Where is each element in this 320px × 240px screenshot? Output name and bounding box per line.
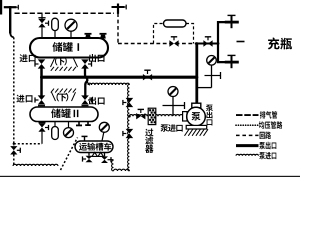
wire: loop line horizontal (dashed) to pump riser: [118, 43, 195, 45]
legend sample: equalizing line: [236, 124, 259, 126]
tank I pressure gauge: [70, 31, 72, 38]
tank II outlet valve: [81, 95, 89, 104]
wire: loop line vertical (dashed): [117, 13, 119, 43]
bottle connection cross (upper): [225, 15, 239, 28]
valve on equalizing line: [10, 146, 17, 154]
ground hatch mark tank II: [51, 89, 76, 93]
ground hatch mark tank I: [51, 67, 76, 71]
storage tank I: [30, 38, 108, 58]
pump P1: [183, 103, 206, 126]
legend sample: pump inlet: [236, 154, 258, 155]
pump base with ground hatching: [185, 125, 209, 135]
label chukou1: [89, 54, 105, 62]
bypass box (dashed) around loop valve: [154, 24, 194, 44]
filling station bracket: [218, 21, 230, 63]
filter (hatched): [148, 108, 156, 124]
truck left unloading valve: [88, 152, 90, 155]
valve on suction leg (lower): [126, 129, 134, 138]
truck gauge: [102, 132, 104, 141]
label pumpout: [206, 105, 213, 126]
label leg5: [259, 152, 276, 159]
valve on loop line: [169, 40, 178, 46]
wire: equalizing line (dotted) left vertical: [13, 37, 15, 145]
tank I vent valve to header: [41, 13, 43, 19]
wire: equalizing diagonal (dotted) to truck: [61, 138, 78, 171]
wire: pump discharge riser (thick): [195, 44, 198, 105]
bottle connection cross (lower): [225, 55, 239, 68]
valve on suction leg (upper): [126, 98, 134, 107]
label leg2: [259, 121, 282, 129]
label chongping: [268, 38, 292, 50]
label xia2: [57, 93, 69, 102]
label pumpchar: [192, 112, 201, 120]
suction pressure gauge branch: [163, 97, 185, 117]
wire: solid line riser top to filling bracket: [195, 43, 218, 45]
tank I inlet valve: [38, 56, 45, 58]
discharge pressure gauge: [207, 56, 217, 66]
label filterlbl: [145, 128, 153, 153]
tank I top nozzle fittings: [85, 35, 91, 39]
wire: tank inlet drop (thick): [40, 68, 43, 96]
truck right unloading valve: [104, 152, 106, 156]
wire: truck unloading (wavy) bottom run: [114, 169, 130, 171]
storage tank II: [30, 107, 98, 122]
label leg1: [260, 111, 277, 119]
valve before filter: [136, 113, 145, 119]
label truckname: [79, 143, 112, 151]
truck vapor valve: [82, 135, 88, 137]
wire: exhaust header (dashed) from stack 1 to stack 2: [15, 12, 115, 14]
wire: pump suction (wavy) header branch: [87, 81, 90, 85]
tank II pressure gauge: [68, 122, 70, 128]
wire: pump discharge header (thick): [42, 76, 197, 79]
tank II inlet valve: [38, 95, 46, 104]
label xia1: [55, 57, 67, 66]
label tank2name: [51, 109, 78, 119]
truck wheels: [92, 152, 103, 156]
tank I safety valve capsule: [52, 18, 59, 30]
wire: equalizing branch (dotted) to tank II drain: [14, 143, 42, 145]
vent stack 2 (with cap): [112, 4, 127, 14]
vent stack 1 (top-left exhaust riser with cap): [4, 5, 18, 38]
label chukou2: [89, 97, 105, 105]
label jinkou1: [20, 54, 36, 62]
wire: pump suction (wavy) to filter and pump: [129, 115, 183, 117]
wire: pump suction (wavy) down leg: [128, 84, 130, 171]
legend sample: exhaust pipe: [236, 114, 259, 116]
label leg3: [260, 132, 271, 140]
safety device capsule on bypass: [164, 20, 187, 27]
label jinkou2: [16, 95, 32, 103]
wire: left drain line (wavy): [13, 164, 58, 166]
discharge pressure gauge branch: [197, 65, 221, 88]
tank I outlet valve: [82, 56, 89, 58]
label pumpin: [161, 124, 183, 132]
tie mark to filling label: [237, 41, 245, 43]
tank II bottom nozzle fittings: [78, 122, 80, 126]
tank II drain valve: [39, 122, 46, 124]
legend sample: pump outlet: [236, 144, 259, 147]
wire: tank outlet drop with hop over header: [85, 68, 87, 96]
label leg4: [259, 142, 276, 150]
label tank1name: [53, 42, 80, 52]
scan border marks: [0, 0, 2, 15]
tank II safety valve capsule: [54, 122, 56, 127]
suction pressure gauge: [168, 87, 178, 97]
transport tank truck: [75, 141, 113, 153]
legend sample: loop: [236, 134, 259, 136]
valve on filling line: [203, 40, 212, 46]
valve on discharge header: [143, 74, 152, 80]
